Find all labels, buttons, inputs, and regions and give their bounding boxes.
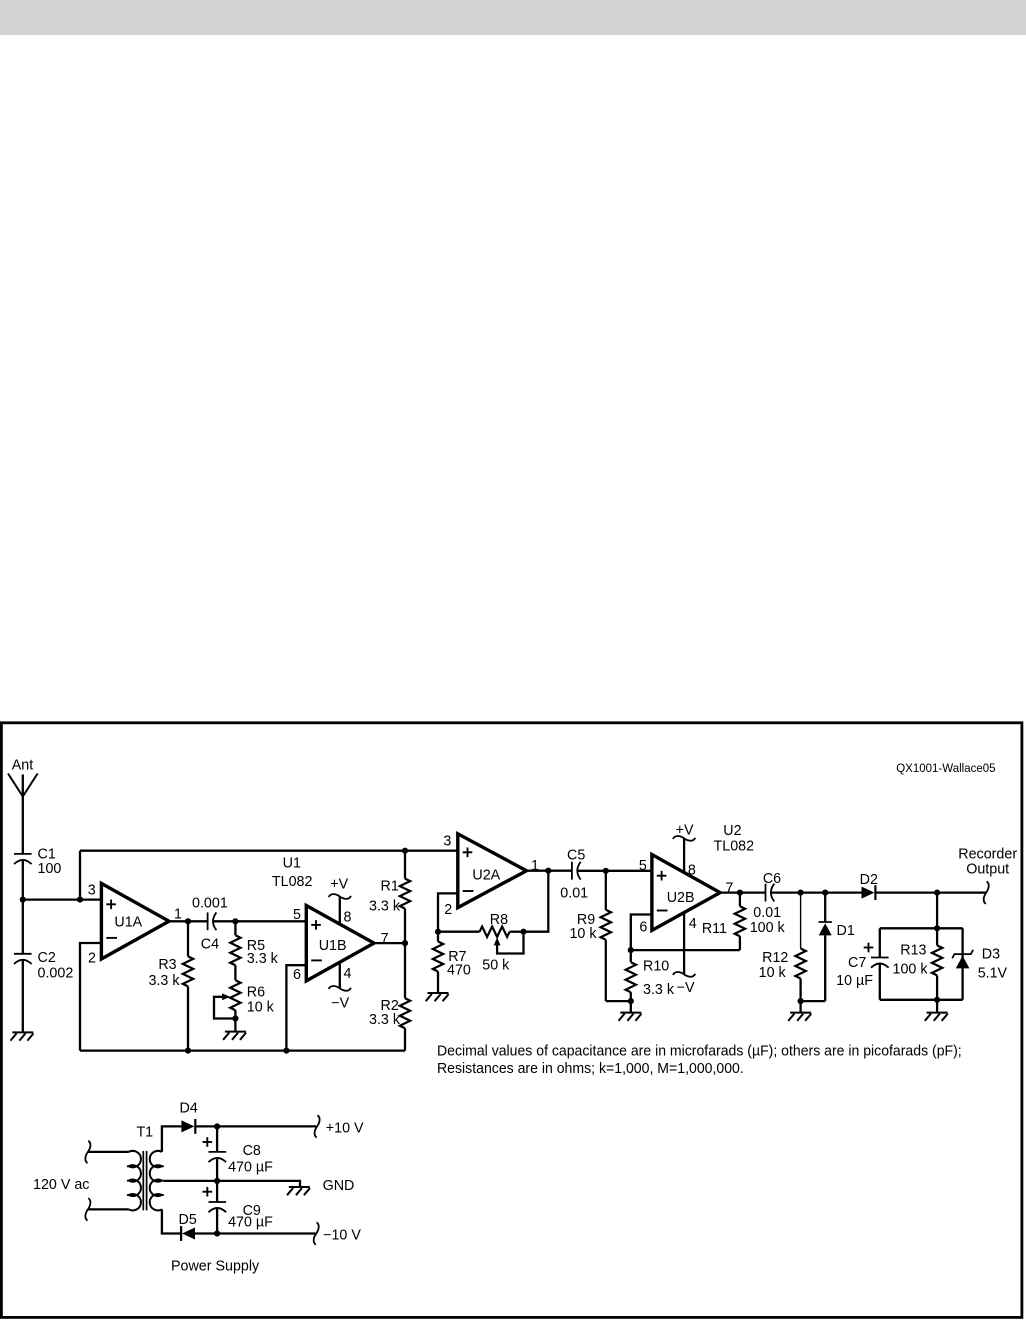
C7 polarity plus <box>864 943 874 953</box>
D3 value label <box>978 947 1008 982</box>
wire U1B pin 6 <box>286 965 306 1050</box>
resistor R12 <box>795 893 805 1013</box>
svg-text:50 k: 50 k <box>482 958 510 974</box>
break symbol primary top <box>85 1141 90 1163</box>
junction <box>798 890 804 896</box>
svg-text:R3: R3 <box>158 957 176 973</box>
supply squiggle -V (U2) <box>673 972 695 977</box>
op-amp U1A <box>101 883 169 959</box>
capacitor C9 <box>209 1181 227 1234</box>
svg-text:C7: C7 <box>848 955 866 971</box>
svg-text:TL082: TL082 <box>714 838 755 854</box>
C1 value label <box>38 846 62 877</box>
wire U2B pin 6 <box>631 915 652 951</box>
junction <box>798 998 804 1004</box>
svg-text:5.1V: 5.1V <box>978 966 1008 982</box>
wire D4 to +10V <box>195 1125 316 1127</box>
U1B pin 4 lead <box>339 962 341 988</box>
R10 value label <box>643 958 675 998</box>
svg-text:3.3 k: 3.3 k <box>643 982 675 998</box>
resistor R11 <box>735 893 745 951</box>
svg-text:C6: C6 <box>763 871 781 887</box>
svg-text:8: 8 <box>688 862 696 878</box>
break symbol +10V <box>315 1115 320 1137</box>
svg-text:U2: U2 <box>723 823 741 839</box>
resistor R5 <box>230 921 240 980</box>
svg-text:3.3 k: 3.3 k <box>247 951 279 967</box>
svg-text:Resistances are in ohms; k=1,0: Resistances are in ohms; k=1,000, M=1,00… <box>437 1061 744 1077</box>
svg-text:R8: R8 <box>490 912 508 928</box>
svg-text:GND: GND <box>323 1178 355 1194</box>
svg-text:+V: +V <box>676 822 694 838</box>
svg-text:Ant: Ant <box>12 757 33 773</box>
svg-text:U1: U1 <box>283 856 301 872</box>
ground <box>790 1012 811 1014</box>
svg-text:D4: D4 <box>180 1101 198 1117</box>
svg-text:QX1001-Wallace05: QX1001-Wallace05 <box>896 761 996 775</box>
svg-text:7: 7 <box>381 931 389 947</box>
capacitor C6 <box>765 884 767 902</box>
svg-text:U2B: U2B <box>667 890 695 906</box>
ground <box>428 992 449 994</box>
R8 wiper arm <box>494 932 524 954</box>
svg-text:10 k: 10 k <box>247 999 275 1015</box>
svg-text:D1: D1 <box>837 923 855 939</box>
wire U1A output to C4 <box>169 920 208 922</box>
svg-text:U2A: U2A <box>472 868 500 884</box>
wire D2 to recorder output <box>875 891 986 893</box>
Recorder Output label <box>958 847 1017 878</box>
break symbol -10V <box>314 1222 319 1244</box>
C4 value label <box>192 896 228 953</box>
potentiometer R6 <box>230 980 240 1031</box>
junction <box>628 998 634 1004</box>
wire feedback rail to R11 <box>631 949 740 951</box>
schematic border frame <box>1 723 1022 1318</box>
svg-text:3: 3 <box>88 882 96 898</box>
junction <box>20 897 26 903</box>
transformer T1 primary winding <box>129 1151 141 1211</box>
junction <box>402 848 408 854</box>
junction <box>185 918 191 924</box>
svg-text:3.3 k: 3.3 k <box>149 973 181 989</box>
wire U2A output <box>527 870 572 872</box>
ground <box>620 1012 641 1014</box>
R5 value label <box>247 938 279 967</box>
R13 value label <box>893 943 929 978</box>
svg-text:10 µF: 10 µF <box>836 973 873 989</box>
svg-text:C8: C8 <box>243 1143 261 1159</box>
resistor R7 <box>433 932 443 993</box>
svg-text:4: 4 <box>344 966 352 982</box>
svg-text:0.001: 0.001 <box>192 896 228 912</box>
R2 value label <box>369 998 401 1028</box>
diode D5 <box>180 1226 182 1241</box>
R8 value label <box>482 912 510 974</box>
svg-text:5: 5 <box>639 858 647 874</box>
capacitor C1 <box>14 854 32 900</box>
svg-text:8: 8 <box>344 909 352 925</box>
wire output node down to clamp box <box>936 893 938 929</box>
diode D1 <box>801 893 832 1002</box>
svg-text:T1: T1 <box>136 1124 153 1140</box>
antenna Ant <box>8 757 38 854</box>
C8 value label <box>228 1143 273 1176</box>
supply squiggle +V (U1) <box>329 894 351 899</box>
wire clamp box to ground <box>936 1000 938 1013</box>
svg-text:6: 6 <box>293 967 301 983</box>
svg-text:C1: C1 <box>38 846 56 862</box>
wire U2B output to C6 <box>720 891 765 893</box>
svg-text:100 k: 100 k <box>893 962 929 978</box>
svg-text:D5: D5 <box>179 1212 197 1228</box>
wire U2A pin 2 <box>438 893 458 931</box>
wire secondary bottom to D5 <box>162 1209 181 1233</box>
op-amp U2A <box>458 834 527 908</box>
svg-text:R6: R6 <box>247 985 265 1001</box>
svg-text:R12: R12 <box>762 950 788 966</box>
junction <box>232 1015 238 1021</box>
svg-text:C4: C4 <box>201 936 219 952</box>
resistor R10 <box>626 950 636 1013</box>
svg-text:6: 6 <box>639 920 647 936</box>
R1 value label <box>369 879 401 915</box>
supply squiggle -V (U1) <box>329 986 351 991</box>
C7 value label <box>836 955 873 989</box>
svg-text:7: 7 <box>725 880 733 896</box>
wire center tap to GND <box>164 1181 300 1187</box>
svg-text:4: 4 <box>689 916 697 932</box>
wire D5 to -10V <box>195 1232 315 1234</box>
svg-text:10 k: 10 k <box>569 926 597 942</box>
U1 designator label <box>272 856 313 890</box>
svg-text:470: 470 <box>447 963 471 979</box>
junction <box>214 1230 220 1236</box>
svg-text:Decimal values of capacitance: Decimal values of capacitance are in mic… <box>437 1043 962 1059</box>
junction <box>214 1123 220 1129</box>
junction <box>77 897 83 903</box>
wire U2A output to R8 branch <box>524 871 549 932</box>
capacitor C8 <box>209 1126 227 1181</box>
node A wire (antenna to U1A pin3) <box>23 898 102 900</box>
U2B pin 8 lead <box>683 838 685 873</box>
wire U1B output <box>374 942 405 944</box>
svg-text:R11: R11 <box>702 921 727 937</box>
svg-text:D2: D2 <box>860 872 878 888</box>
wire C5 to U2B pin 5 <box>577 870 652 872</box>
R7 value label <box>447 949 471 979</box>
junction <box>214 1178 220 1184</box>
svg-text:−V: −V <box>331 995 349 1011</box>
T1 core <box>143 1151 146 1211</box>
junction <box>934 997 940 1003</box>
resistor R3 <box>183 921 193 1050</box>
ground <box>12 1031 33 1033</box>
svg-text:5: 5 <box>293 907 301 923</box>
junction <box>628 947 634 953</box>
capacitor C7 <box>871 957 889 959</box>
wire R8 left <box>438 931 480 933</box>
junction <box>545 868 551 874</box>
svg-text:2: 2 <box>444 902 452 918</box>
junction <box>520 929 526 935</box>
resistor R13 <box>932 928 942 1000</box>
junction <box>822 890 828 896</box>
U2B pin 4 lead <box>683 912 685 974</box>
junction <box>934 925 940 931</box>
junction <box>603 868 609 874</box>
junction <box>435 929 441 935</box>
junction <box>283 1048 289 1054</box>
C2 value label <box>38 950 74 981</box>
capacitor C5 <box>571 862 573 880</box>
R12 value label <box>759 950 789 981</box>
units note <box>437 1043 962 1077</box>
svg-text:Recorder: Recorder <box>958 847 1017 863</box>
svg-text:−V: −V <box>677 980 695 996</box>
svg-text:2: 2 <box>88 950 96 966</box>
wire C4 to U1B pin 5 <box>213 920 306 922</box>
resistor R2 <box>400 943 410 1051</box>
svg-text:U1B: U1B <box>319 938 347 954</box>
junction <box>402 940 408 946</box>
supply squiggle +V (U2) <box>673 836 695 841</box>
top gray header bar <box>0 0 1026 35</box>
wire riser to top rail <box>79 851 81 900</box>
transformer T1 secondary winding <box>150 1151 162 1211</box>
junction <box>185 1048 191 1054</box>
capacitor C2 <box>14 900 32 1033</box>
svg-text:470 µF: 470 µF <box>228 1160 273 1176</box>
C9 polarity plus <box>203 1187 213 1197</box>
diode D2 <box>862 887 875 899</box>
svg-text:C5: C5 <box>567 848 585 864</box>
svg-text:U1A: U1A <box>114 914 142 930</box>
svg-text:100: 100 <box>38 861 62 877</box>
wire secondary top to D4 <box>162 1126 182 1152</box>
ground <box>289 1186 310 1188</box>
potentiometer R8 <box>480 927 510 937</box>
svg-text:R13: R13 <box>900 943 926 959</box>
C6 value label <box>750 871 786 936</box>
svg-text:470 µF: 470 µF <box>228 1215 273 1231</box>
resistor R1 <box>400 851 410 943</box>
wire bottom feedback rail <box>80 1049 405 1051</box>
wire R8 right <box>510 931 524 933</box>
R6 value label <box>247 985 275 1016</box>
junction <box>232 918 238 924</box>
svg-text:Power Supply: Power Supply <box>171 1259 260 1275</box>
svg-text:R1: R1 <box>381 879 399 895</box>
T1 primary stubs <box>127 1166 135 1195</box>
svg-text:120 V ac: 120 V ac <box>33 1177 89 1193</box>
svg-text:TL082: TL082 <box>272 874 313 890</box>
svg-text:+V: +V <box>330 877 348 893</box>
ground <box>927 1012 948 1014</box>
wire primary bottom lead <box>88 1208 129 1210</box>
ground <box>225 1031 246 1033</box>
svg-text:3.3 k: 3.3 k <box>369 898 401 914</box>
C5 value label <box>560 848 588 902</box>
wire top rail to U2A pin 3 <box>80 850 458 852</box>
svg-text:0.01: 0.01 <box>753 905 781 921</box>
U1B pin 8 lead <box>339 896 341 924</box>
C8 polarity plus <box>203 1137 213 1147</box>
svg-text:Output: Output <box>966 862 1009 878</box>
zener diode D3 <box>952 950 973 959</box>
capacitor C4 <box>207 912 209 930</box>
wire C6 to D2 <box>771 891 862 893</box>
svg-text:−10 V: −10 V <box>323 1228 361 1244</box>
op-amp U2B <box>652 855 720 931</box>
wire U1A pin 2 feedback <box>80 943 101 1051</box>
clamp network box wires <box>880 928 963 1000</box>
break symbol primary bottom <box>85 1198 90 1220</box>
svg-text:10 k: 10 k <box>759 965 787 981</box>
svg-text:100 k: 100 k <box>750 920 786 936</box>
junction <box>934 890 940 896</box>
svg-text:0.002: 0.002 <box>38 966 74 982</box>
diode D4 <box>181 1120 194 1132</box>
junction <box>737 890 743 896</box>
op-amp U1B <box>306 906 374 981</box>
svg-text:R10: R10 <box>643 958 669 974</box>
svg-text:C2: C2 <box>38 950 56 966</box>
C9 value label <box>228 1203 273 1231</box>
R3 value label <box>149 957 181 989</box>
svg-text:3: 3 <box>443 833 451 849</box>
R9 value label <box>569 912 597 942</box>
wire primary top lead <box>88 1151 129 1153</box>
resistor R9 <box>601 871 631 1001</box>
svg-text:0.01: 0.01 <box>560 885 588 901</box>
R6 wiper arm <box>214 993 235 1018</box>
U2 designator label <box>714 823 755 854</box>
svg-text:3.3 k: 3.3 k <box>369 1012 401 1028</box>
T1 secondary stubs <box>155 1166 163 1195</box>
svg-text:D3: D3 <box>982 947 1000 963</box>
svg-text:+10 V: +10 V <box>326 1120 364 1136</box>
break symbol recorder output <box>984 881 989 903</box>
